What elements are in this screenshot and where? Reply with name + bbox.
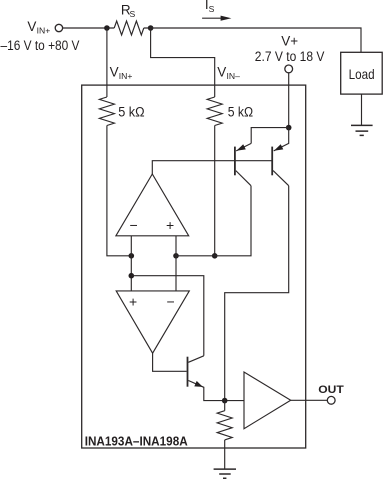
label VIN+ xyxy=(27,19,50,36)
wire op1 plus input xyxy=(175,236,177,291)
wire R1 to rail xyxy=(107,126,131,256)
node feedback junction xyxy=(129,273,135,279)
svg-text:5 kΩ: 5 kΩ xyxy=(228,104,253,119)
resistor R2 5k xyxy=(207,97,222,126)
node B junction xyxy=(148,25,154,31)
arrow IS xyxy=(202,16,231,21)
wire feedback to Q3 collector xyxy=(131,276,204,356)
node rail right junction xyxy=(212,253,218,259)
wire op1 minus input xyxy=(130,236,132,291)
ground main xyxy=(214,469,236,478)
op-amp A2 xyxy=(116,291,189,353)
ground load xyxy=(351,125,373,135)
resistor RS xyxy=(114,21,144,35)
svg-text:+: + xyxy=(166,217,174,233)
svg-text:V+: V+ xyxy=(281,34,298,49)
wire emitter node to Q1 xyxy=(251,128,289,144)
load box xyxy=(341,52,383,94)
transistor Q3 xyxy=(188,356,245,401)
svg-text:IN+: IN+ xyxy=(37,25,51,35)
svg-text:S: S xyxy=(130,9,136,19)
svg-text:−: − xyxy=(130,217,138,233)
svg-text:2.7 V to 18 V: 2.7 V to 18 V xyxy=(255,49,325,64)
resistor R3 xyxy=(217,401,232,469)
wire node B down to R2 xyxy=(151,28,215,97)
resistor R1 5k xyxy=(99,97,114,126)
wire node A down xyxy=(106,28,108,97)
label VIN+ inner xyxy=(110,65,133,82)
transistor Q2 xyxy=(272,144,289,186)
node A junction xyxy=(104,25,110,31)
wire Q2 emitter xyxy=(274,128,289,151)
terminal V+ xyxy=(285,65,293,73)
wire node B to Load xyxy=(144,28,361,52)
node emitter junction xyxy=(286,125,292,131)
label RS xyxy=(121,3,136,19)
svg-text:IN+: IN+ xyxy=(119,71,133,81)
op-amp A1 xyxy=(116,174,189,236)
node rail left junction xyxy=(129,253,135,259)
label VIN- inner xyxy=(217,65,240,82)
terminal OUT xyxy=(327,396,335,404)
svg-text:+: + xyxy=(129,293,137,309)
wire op1 output to bases xyxy=(152,161,272,174)
transistor Q1 xyxy=(235,143,251,185)
svg-text:–16 V to +80 V: –16 V to +80 V xyxy=(1,38,80,53)
wire R2 to rail xyxy=(214,126,216,256)
svg-text:5 kΩ: 5 kΩ xyxy=(118,104,144,119)
wire V+ to emitters xyxy=(288,73,290,128)
svg-text:S: S xyxy=(209,4,215,14)
svg-text:OUT: OUT xyxy=(318,384,344,396)
op-amp A3 output buffer xyxy=(244,372,291,429)
svg-text:V: V xyxy=(27,19,36,34)
wire terminal to Rs xyxy=(63,27,114,29)
wire rail to Q1 collector xyxy=(176,186,251,256)
label IS xyxy=(205,0,215,14)
node rail mid junction xyxy=(173,253,179,259)
svg-text:Load: Load xyxy=(349,66,375,82)
wire load to ground xyxy=(361,94,363,125)
main box INA193A-INA198A xyxy=(82,85,306,448)
svg-text:IN–: IN– xyxy=(227,71,241,81)
wire op2 output to Q3 base xyxy=(153,353,187,371)
svg-text:V: V xyxy=(217,65,226,80)
node out junction xyxy=(222,398,228,404)
wire out xyxy=(291,399,328,401)
svg-text:INA193A–INA198A: INA193A–INA198A xyxy=(85,434,189,449)
wire Q2 collector to output node xyxy=(225,186,289,401)
svg-text:−: − xyxy=(167,293,175,309)
terminal VIN+ xyxy=(55,24,62,31)
svg-text:V: V xyxy=(110,65,119,80)
